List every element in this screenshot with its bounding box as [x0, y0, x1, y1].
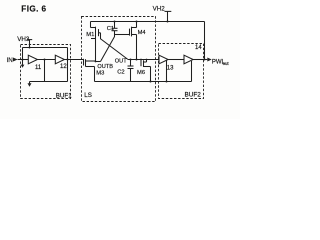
- wire VH3 rail right drop to BUF1 bottom rail: [67, 48, 69, 82]
- svg-text:BUF2: BUF2: [185, 91, 202, 98]
- buffer 14: [184, 55, 193, 64]
- wire BUF1 bottom rail: [30, 81, 68, 83]
- node junction signal/VH3 drop: [67, 59, 69, 61]
- wire junction down to BUF1 bottom rail: [44, 60, 46, 82]
- wire VH3 rail horizontal: [23, 47, 68, 49]
- wire LS/BUF2 bottom rail: [95, 81, 192, 83]
- svg-text:FIG. 6: FIG. 6: [21, 4, 46, 13]
- svg-text:C1: C1: [107, 26, 114, 32]
- wire C1 junction to M4 gate: [115, 34, 130, 36]
- output arrowhead: [207, 58, 211, 62]
- svg-text:OUTB: OUTB: [97, 64, 113, 70]
- transistor M4: [130, 22, 137, 60]
- node junction VH2/rail: [167, 21, 169, 23]
- IN arrowhead: [13, 58, 18, 62]
- node junction IN/VH3 drop: [22, 59, 24, 61]
- svg-text:M1: M1: [86, 32, 94, 38]
- wire buffer 13 to buffer 14: [168, 59, 184, 61]
- svg-text:LS: LS: [84, 92, 92, 99]
- node junction between buffers: [44, 59, 46, 61]
- ground arrow BUF1: [28, 83, 32, 87]
- wire cross-coupling diagonal B: [101, 35, 115, 62]
- ground arrow under IN node: [21, 65, 25, 68]
- svg-text:M6: M6: [137, 70, 145, 76]
- BUF1 dashed box: [21, 45, 71, 99]
- wire buffer 14 bottom to rail: [191, 61, 193, 82]
- LS dashed box: [82, 17, 156, 102]
- wire buffer 14 to output: [193, 59, 207, 61]
- svg-text:C2: C2: [117, 70, 124, 76]
- wire buffer 12 to M3 gate: [64, 59, 83, 61]
- wire rail drop to output: [204, 22, 206, 60]
- svg-text:14: 14: [195, 45, 202, 51]
- svg-text:VH2: VH2: [153, 5, 166, 12]
- capacitor C2: [128, 60, 134, 82]
- svg-text:BUF1: BUF1: [56, 92, 72, 99]
- wire VH2 down to rail: [167, 11, 169, 21]
- transistor M1: [91, 22, 101, 62]
- buffer 12: [55, 55, 64, 64]
- wire OUT to buffer 13: [128, 59, 159, 61]
- node junction VH3/rail: [29, 47, 31, 49]
- svg-text:12: 12: [60, 64, 67, 70]
- transistor M3: [84, 59, 96, 82]
- svg-text:M3: M3: [96, 71, 104, 77]
- wire ground stem: [29, 82, 31, 84]
- svg-text:OUT: OUT: [115, 59, 127, 65]
- wire top rail VH2: [91, 21, 205, 23]
- wire rail left drop across IN to ground arrow: [22, 48, 24, 65]
- svg-text:11: 11: [35, 65, 42, 71]
- BUF2 dashed box: [159, 44, 204, 99]
- svg-text:13: 13: [167, 66, 174, 72]
- wire IN to buffer 11: [18, 59, 29, 61]
- buffer 13: [159, 55, 168, 64]
- wire cross-coupling diagonal A: [101, 33, 129, 60]
- svg-text:M4: M4: [138, 30, 147, 36]
- VH3 terminal bar: [27, 39, 32, 41]
- buffer 11: [28, 55, 37, 64]
- capacitor C1: [112, 22, 118, 35]
- svg-text:out: out: [223, 61, 230, 66]
- wire VH3 vertical down to rail: [29, 40, 31, 48]
- svg-text:IN: IN: [7, 57, 14, 64]
- node OUTB wire: [96, 61, 101, 63]
- wire buffer 13 bottom to rail: [166, 60, 168, 81]
- VH2 terminal bar: [165, 10, 172, 12]
- wire buffer 11 to buffer 12: [37, 59, 55, 61]
- transistor M6: [141, 60, 151, 82]
